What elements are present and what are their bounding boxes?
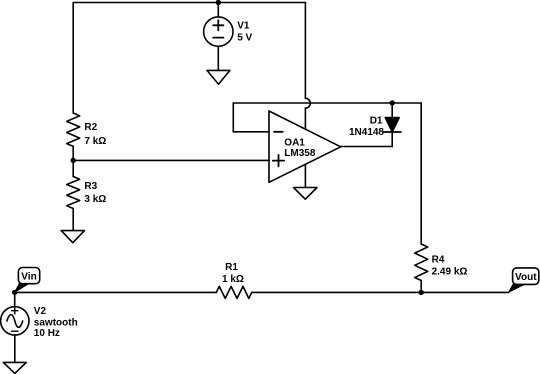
node junction top rail / V1 [216,0,221,5]
wire op-amp power from rail [304,3,306,99]
node junction Vin / V2 [12,290,17,295]
op-amp OA1 [269,111,341,182]
wire feedback left vertical [232,103,234,132]
resistor R1 [216,286,252,298]
svg-text:R4: R4 [432,254,445,265]
terminal Vin [15,268,40,293]
svg-text:V1: V1 [237,20,250,31]
svg-text:Vin: Vin [21,271,36,282]
wire bottom rail left [15,291,217,293]
wire op-amp output [341,146,393,148]
wire node to R3 [72,160,74,176]
svg-text:V2: V2 [34,306,47,317]
ground (below V2) [3,362,26,373]
wire diode bottom stem [391,132,393,147]
terminal Vout [509,268,539,292]
wire R3 to ground [72,209,74,231]
wire hop over feedback [305,98,310,108]
wire right vertical to R4 [420,103,422,244]
ground (below V1) [207,70,230,84]
svg-text:OA1: OA1 [284,138,305,149]
wire node to op-amp plus input [73,159,269,161]
svg-text:LM358: LM358 [284,148,316,159]
voltage source V2 sawtooth [1,307,29,335]
svg-text:5 V: 5 V [237,33,252,44]
resistor R4 [415,244,428,281]
wire top rail [73,2,305,4]
svg-text:Vout: Vout [515,272,537,283]
voltage source V1 [204,17,233,46]
svg-text:2.49 kΩ: 2.49 kΩ [432,267,468,278]
svg-text:3 kΩ: 3 kΩ [84,194,106,205]
svg-text:sawtooth: sawtooth [34,318,78,329]
svg-text:R2: R2 [84,122,97,133]
ground (below R3) [61,231,84,243]
node junction R4 / bottom rail [419,290,424,295]
wire diode top stem [391,103,393,118]
wire op-amp ground pin [304,165,306,188]
resistor R2 [67,113,80,146]
ground (below op-amp) [294,188,318,200]
wire V1 bottom stem [217,46,219,70]
svg-text:1 kΩ: 1 kΩ [222,274,244,285]
wire bottom rail right [252,291,509,293]
svg-text:R3: R3 [84,181,97,192]
svg-text:D1: D1 [370,115,383,126]
node junction R2/R3 divider [71,158,76,163]
wire hop to op-amp top edge [304,108,306,129]
wire left vertical to R2 [72,3,74,114]
node junction feedback / diode [390,100,395,105]
diode D1 [385,118,399,132]
svg-text:7 kΩ: 7 kΩ [84,136,106,147]
wire R2 bottom to node [72,146,74,160]
svg-text:R1: R1 [225,262,238,273]
wire V1 top stem [217,3,219,17]
svg-text:10 Hz: 10 Hz [34,328,60,339]
wire minus input [233,131,269,133]
wire V2 bottom stem [14,335,16,362]
wire feedback top horizontal [233,102,421,104]
resistor R3 [67,177,80,209]
svg-text:1N4148: 1N4148 [349,127,384,138]
wire R4 to bottom rail [420,281,422,293]
wire V2 top stem [14,292,16,306]
